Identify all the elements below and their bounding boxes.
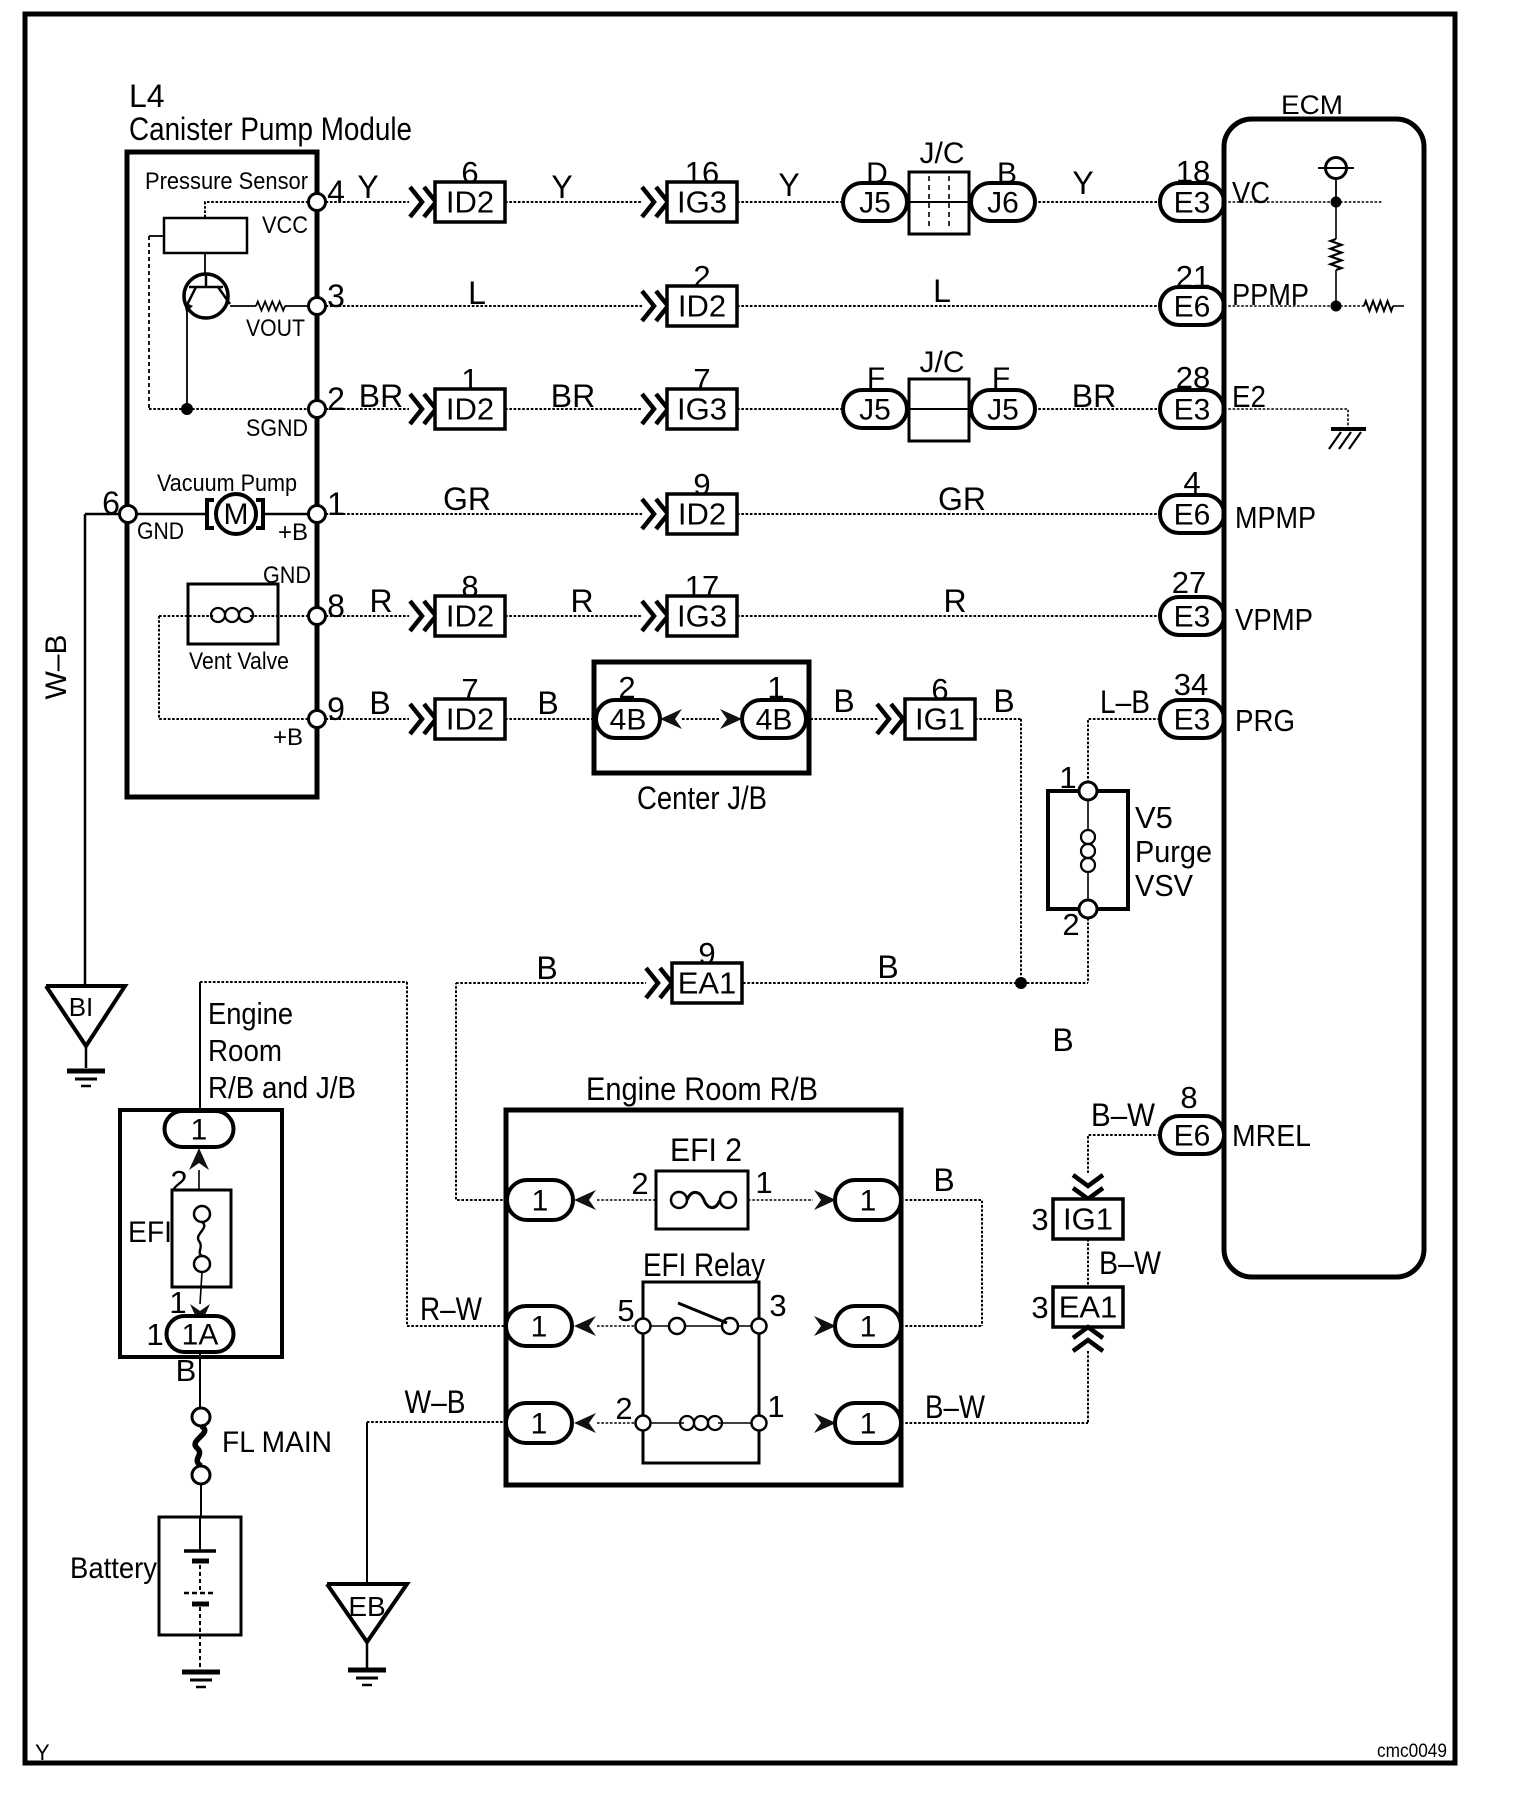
svg-text:1: 1: [461, 362, 478, 397]
svg-text:3: 3: [1031, 1290, 1048, 1325]
svg-text:B: B: [1052, 1022, 1073, 1058]
svg-text:cmc0049: cmc0049: [1377, 1741, 1447, 1762]
svg-text:6: 6: [461, 155, 478, 190]
svg-text:Y: Y: [35, 1740, 50, 1765]
svg-text:B: B: [933, 1162, 954, 1198]
svg-text:EFI Relay: EFI Relay: [643, 1247, 765, 1283]
svg-text:FL MAIN: FL MAIN: [222, 1426, 332, 1459]
svg-text:GR: GR: [938, 481, 986, 517]
svg-text:9: 9: [698, 936, 715, 971]
svg-text:R: R: [369, 583, 392, 619]
svg-text:VC: VC: [1232, 175, 1270, 210]
svg-text:IG1: IG1: [1063, 1202, 1113, 1237]
svg-text:B: B: [833, 683, 854, 719]
svg-text:MPMP: MPMP: [1235, 500, 1316, 535]
svg-text:1: 1: [1059, 760, 1076, 795]
svg-text:Room: Room: [208, 1033, 282, 1068]
svg-text:EA1: EA1: [1059, 1290, 1118, 1325]
svg-text:E6: E6: [1174, 1120, 1211, 1153]
svg-text:W–B: W–B: [405, 1384, 466, 1420]
svg-text:L4: L4: [129, 78, 165, 114]
svg-text:Y: Y: [551, 169, 572, 205]
svg-text:L: L: [468, 275, 486, 311]
svg-text:1: 1: [767, 670, 784, 705]
svg-text:2: 2: [618, 670, 635, 705]
svg-text:B–W: B–W: [1091, 1097, 1156, 1133]
svg-text:Battery: Battery: [70, 1552, 157, 1585]
svg-text:1: 1: [755, 1165, 772, 1200]
svg-text:2: 2: [693, 259, 710, 294]
svg-text:Y: Y: [1072, 165, 1093, 201]
svg-text:F: F: [867, 362, 885, 395]
svg-text:J/C: J/C: [920, 346, 965, 379]
svg-text:1: 1: [531, 1408, 548, 1441]
svg-text:BR: BR: [551, 378, 595, 414]
svg-text:E3: E3: [1174, 601, 1211, 634]
svg-text:L–B: L–B: [1100, 684, 1150, 720]
svg-text:21: 21: [1176, 259, 1210, 294]
svg-text:Engine: Engine: [208, 996, 293, 1031]
svg-text:16: 16: [685, 155, 719, 190]
svg-text:2: 2: [631, 1166, 648, 1201]
svg-text:Center J/B: Center J/B: [637, 780, 767, 816]
svg-text:1: 1: [532, 1185, 549, 1218]
svg-text:Canister Pump Module: Canister Pump Module: [129, 111, 412, 147]
svg-text:1: 1: [860, 1185, 877, 1218]
svg-text:B: B: [997, 157, 1017, 190]
svg-text:B–W: B–W: [925, 1389, 986, 1425]
svg-text:B: B: [176, 1353, 197, 1388]
svg-text:Y: Y: [778, 167, 799, 203]
svg-text:BR: BR: [359, 378, 403, 414]
svg-text:W–B: W–B: [40, 634, 73, 699]
svg-text:6: 6: [931, 672, 948, 707]
svg-text:2: 2: [615, 1391, 632, 1426]
svg-text:8: 8: [1180, 1080, 1197, 1115]
svg-text:5: 5: [617, 1293, 634, 1328]
svg-text:Vacuum Pump: Vacuum Pump: [157, 470, 297, 497]
svg-text:R–W: R–W: [420, 1291, 483, 1327]
svg-text:VCC: VCC: [262, 212, 308, 239]
svg-text:Vent Valve: Vent Valve: [189, 648, 289, 675]
svg-text:E6: E6: [1174, 499, 1211, 532]
svg-text:E3: E3: [1174, 187, 1211, 220]
svg-text:BI: BI: [69, 992, 94, 1022]
svg-text:E6: E6: [1174, 291, 1211, 324]
svg-text:B: B: [536, 950, 557, 986]
svg-text:VSV: VSV: [1135, 868, 1193, 903]
svg-text:8: 8: [461, 569, 478, 604]
svg-text:18: 18: [1176, 154, 1210, 189]
svg-text:F: F: [992, 362, 1010, 395]
svg-text:R/B and J/B: R/B and J/B: [208, 1070, 356, 1105]
svg-text:4B: 4B: [756, 704, 793, 737]
svg-text:V5: V5: [1135, 800, 1173, 835]
svg-text:Engine Room R/B: Engine Room R/B: [586, 1071, 818, 1107]
svg-text:1: 1: [531, 1311, 548, 1344]
svg-text:R: R: [943, 583, 966, 619]
svg-text:B–W: B–W: [1099, 1245, 1162, 1281]
svg-text:2: 2: [1062, 907, 1079, 942]
svg-text:2: 2: [327, 381, 345, 417]
svg-text:28: 28: [1176, 360, 1210, 395]
svg-text:1: 1: [146, 1317, 163, 1352]
svg-text:SGND: SGND: [246, 415, 308, 442]
svg-text:3: 3: [327, 278, 345, 314]
svg-text:27: 27: [1172, 565, 1206, 600]
svg-text:E3: E3: [1174, 704, 1211, 737]
svg-text:J5: J5: [987, 394, 1019, 427]
svg-text:Pressure Sensor: Pressure Sensor: [145, 168, 308, 195]
svg-text:J/C: J/C: [920, 137, 965, 170]
svg-text:ECM: ECM: [1281, 90, 1343, 120]
svg-text:E3: E3: [1174, 394, 1211, 427]
svg-text:B: B: [369, 685, 390, 721]
svg-text:EFI: EFI: [128, 1216, 172, 1249]
svg-text:R: R: [570, 583, 593, 619]
svg-text:9: 9: [693, 467, 710, 502]
svg-text:4: 4: [327, 174, 345, 210]
svg-text:+B: +B: [273, 724, 303, 751]
svg-text:GND: GND: [137, 518, 184, 545]
svg-text:L: L: [933, 273, 951, 309]
svg-text:1: 1: [860, 1408, 877, 1441]
svg-text:J5: J5: [859, 394, 891, 427]
svg-text:+B: +B: [278, 519, 308, 546]
svg-text:3: 3: [1031, 1202, 1048, 1237]
svg-text:17: 17: [685, 569, 719, 604]
svg-text:B: B: [877, 949, 898, 985]
svg-text:BR: BR: [1072, 378, 1116, 414]
svg-text:PRG: PRG: [1235, 703, 1295, 738]
svg-text:GR: GR: [443, 481, 491, 517]
svg-text:1A: 1A: [182, 1319, 219, 1352]
svg-text:D: D: [866, 157, 888, 190]
svg-text:B: B: [993, 683, 1014, 719]
svg-text:EFI 2: EFI 2: [670, 1132, 742, 1168]
svg-text:1: 1: [767, 1389, 784, 1424]
svg-text:Y: Y: [357, 169, 378, 205]
svg-text:EB: EB: [348, 1591, 385, 1622]
svg-text:3: 3: [769, 1288, 786, 1323]
svg-text:1: 1: [860, 1311, 877, 1344]
svg-text:8: 8: [327, 588, 345, 624]
svg-text:34: 34: [1174, 667, 1208, 702]
svg-text:B: B: [537, 685, 558, 721]
svg-text:J6: J6: [987, 187, 1019, 220]
svg-text:MREL: MREL: [1232, 1118, 1311, 1153]
svg-text:6: 6: [102, 485, 120, 521]
svg-text:M: M: [224, 498, 249, 531]
svg-text:VPMP: VPMP: [1235, 602, 1313, 637]
svg-text:4B: 4B: [610, 704, 647, 737]
svg-text:7: 7: [693, 362, 710, 397]
svg-text:1: 1: [191, 1114, 208, 1147]
svg-text:J5: J5: [859, 187, 891, 220]
svg-text:1: 1: [327, 486, 345, 522]
svg-text:Purge: Purge: [1135, 834, 1212, 869]
svg-text:VOUT: VOUT: [246, 315, 305, 342]
svg-text:7: 7: [461, 672, 478, 707]
svg-text:9: 9: [327, 691, 345, 727]
svg-text:4: 4: [1183, 465, 1200, 500]
